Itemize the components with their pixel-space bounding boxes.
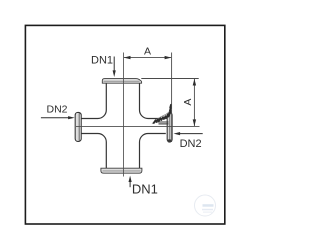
watermark text marks bbox=[203, 204, 214, 207]
body outline top-right quadrant bbox=[140, 83, 166, 119]
frame border bbox=[25, 25, 224, 224]
svg-text:A: A bbox=[182, 99, 194, 106]
svg-text:DN1: DN1 bbox=[132, 182, 158, 197]
label DN1 bottom arrow bbox=[129, 181, 131, 188]
svg-text:DN1: DN1 bbox=[91, 54, 113, 66]
dim A horizontal right arrow bbox=[165, 56, 172, 59]
top flange DN1 bbox=[102, 79, 141, 84]
top flange shading line bbox=[104, 80, 140, 82]
dim A vertical bottom arrow bbox=[193, 119, 196, 126]
svg-text:A: A bbox=[144, 46, 151, 58]
right flange bottom knob bbox=[167, 139, 171, 142]
right flange shading bbox=[168, 113, 170, 141]
watermark circle bbox=[195, 195, 216, 216]
svg-text:DN2: DN2 bbox=[47, 104, 68, 116]
left flange DN2 bbox=[75, 112, 81, 141]
clamp band outline bbox=[152, 106, 171, 124]
horizontal centerline bbox=[76, 125, 200, 127]
label DN2 left arrow bbox=[41, 117, 69, 119]
label DN1 top arrow bbox=[113, 57, 115, 72]
dim A horizontal left arrow bbox=[124, 56, 131, 59]
dim A vertical line bbox=[193, 79, 195, 126]
body outline bottom-right quadrant bbox=[140, 134, 166, 169]
bottom flange shading line bbox=[103, 170, 141, 172]
dim A horizontal line bbox=[124, 57, 171, 59]
right flange DN2 bbox=[167, 113, 172, 142]
bottom flange DN1 bbox=[101, 168, 142, 173]
left flange inner line bbox=[78, 113, 80, 141]
vertical centerline bbox=[122, 53, 124, 177]
dim A vertical top extension line bbox=[141, 78, 198, 80]
left flange shading bbox=[76, 113, 79, 140]
clamp lower jaw bbox=[157, 121, 169, 123]
body outline top-left quadrant bbox=[81, 83, 106, 119]
dim A vertical top arrow bbox=[193, 79, 196, 86]
right flange inner line bbox=[169, 113, 171, 141]
dim A horizontal extension line right bbox=[171, 53, 173, 143]
body outline bottom-left quadrant bbox=[81, 134, 106, 169]
svg-text:DN2: DN2 bbox=[180, 138, 202, 150]
clamp scallops bbox=[154, 105, 171, 123]
label DN2 right arrow bbox=[180, 133, 203, 135]
